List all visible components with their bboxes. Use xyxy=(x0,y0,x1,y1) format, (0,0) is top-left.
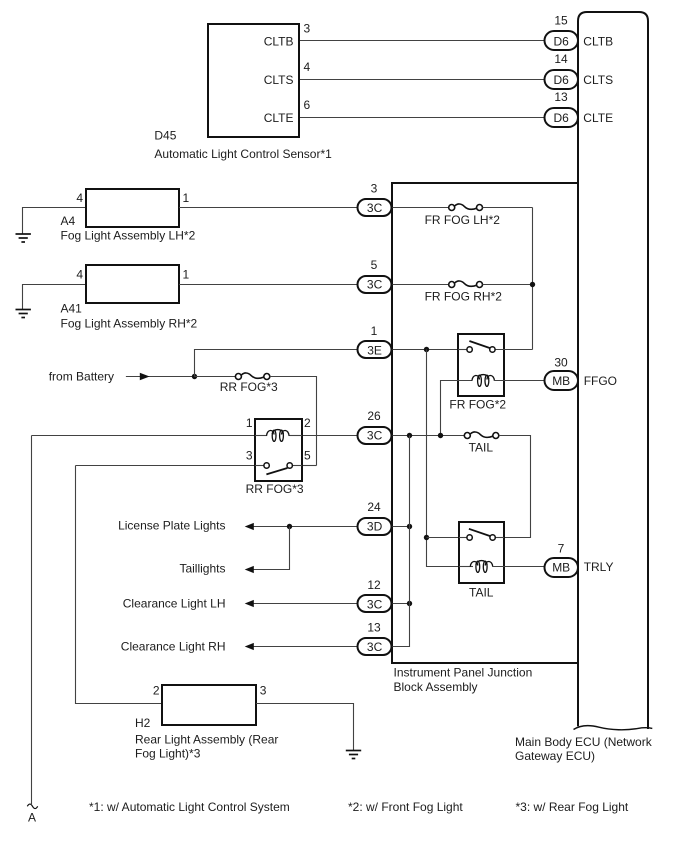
ECU torn bottom wavy edge xyxy=(574,726,653,730)
svg-text:Main Body ECU (Network: Main Body ECU (Network xyxy=(515,735,653,749)
wire fuse RR FOG*3 to relay pin5 xyxy=(270,377,317,466)
svg-text:1: 1 xyxy=(183,267,190,281)
wire A41 pin1 to 3C pin5 xyxy=(179,284,358,286)
node fog fuse vertical junction xyxy=(530,282,535,287)
node 26-row junction coil branch xyxy=(438,433,443,438)
svg-text:Block Assembly: Block Assembly xyxy=(394,680,478,694)
rear light H2 box xyxy=(162,685,256,725)
wire relay RR FOG*3 pin2 to 3C pin26 xyxy=(302,435,359,437)
connector D6 pin13 oval xyxy=(545,108,579,127)
svg-text:4: 4 xyxy=(304,60,311,74)
svg-text:*1: w/ Automatic Light Control: *1: w/ Automatic Light Control System xyxy=(89,800,290,814)
wire tail vertical bus to 3C pin13 xyxy=(392,436,410,647)
wire from battery feed xyxy=(126,376,195,378)
fuse TAIL xyxy=(464,432,499,439)
svg-text:MB: MB xyxy=(552,374,570,388)
fog light A41 box xyxy=(86,265,179,303)
svg-text:1: 1 xyxy=(246,416,253,430)
svg-text:3: 3 xyxy=(304,22,311,36)
svg-text:13: 13 xyxy=(554,90,568,104)
arrow battery flow direction xyxy=(140,373,150,381)
svg-text:RR FOG*3: RR FOG*3 xyxy=(220,380,278,394)
svg-text:FR FOG*2: FR FOG*2 xyxy=(449,398,506,412)
fog light A4 box xyxy=(86,189,179,227)
wire A41 pin4 to ground xyxy=(23,285,87,310)
svg-text:2: 2 xyxy=(153,684,160,698)
svg-text:3: 3 xyxy=(260,684,267,698)
svg-text:1: 1 xyxy=(183,191,190,205)
relay TAIL coil stub left xyxy=(459,566,473,568)
wire A4 pin4 to ground xyxy=(23,208,87,234)
svg-text:3E: 3E xyxy=(367,343,382,357)
wire 3C pin3 to fuse FR FOG LH*2 xyxy=(392,207,449,209)
node 3C12 junction xyxy=(407,601,412,606)
wire 3C pin13 to clearance light RH xyxy=(253,646,359,648)
svg-text:Taillights: Taillights xyxy=(179,562,225,576)
ground G2 (A41) xyxy=(16,310,31,318)
arrow license plate lights xyxy=(245,523,254,530)
svg-text:CLTS: CLTS xyxy=(583,73,613,87)
wire 3C pin26 to fuse TAIL xyxy=(392,435,465,437)
node TAIL switch feed junction xyxy=(424,535,429,540)
svg-text:CLTE: CLTE xyxy=(583,111,613,125)
relay TAIL switch blade xyxy=(469,529,490,536)
wire relay RR FOG*3 pin3 to H2 branch xyxy=(76,465,256,467)
svg-text:MB: MB xyxy=(552,560,570,574)
node battery junction xyxy=(192,374,197,379)
svg-text:14: 14 xyxy=(554,52,568,66)
svg-text:Gateway ECU): Gateway ECU) xyxy=(515,749,595,763)
relay TAIL coil xyxy=(470,561,492,573)
relay FR FOG*2 switch stubs xyxy=(458,349,467,351)
svg-text:Fog Light Assembly RH*2: Fog Light Assembly RH*2 xyxy=(61,317,198,331)
svg-text:CLTE: CLTE xyxy=(264,111,294,125)
svg-text:CLTB: CLTB xyxy=(583,34,613,48)
ground G1 (A4) xyxy=(16,234,31,242)
svg-text:13: 13 xyxy=(367,620,381,634)
fuse FR FOG LH*2 xyxy=(449,204,483,211)
relay FR FOG*2 coil xyxy=(472,375,494,387)
wire fuse FR FOG RH*2 to vertical xyxy=(483,284,533,286)
svg-text:7: 7 xyxy=(558,542,565,556)
node license/taillight junction xyxy=(287,524,292,529)
svg-text:26: 26 xyxy=(367,409,381,423)
svg-text:D45: D45 xyxy=(154,129,176,143)
svg-text:Instrument Panel Junction: Instrument Panel Junction xyxy=(394,666,533,680)
svg-text:D6: D6 xyxy=(554,73,570,87)
svg-text:Clearance Light RH: Clearance Light RH xyxy=(121,640,226,654)
relay RR FOG*3 coil xyxy=(267,430,289,442)
svg-text:24: 24 xyxy=(367,500,381,514)
ECU U1 Main Body ECU outline xyxy=(578,12,648,729)
svg-text:TAIL: TAIL xyxy=(469,441,494,455)
wire 3D pin24 to license plate lights xyxy=(253,526,359,528)
sensor D45 box xyxy=(208,24,299,137)
svg-text:TAIL: TAIL xyxy=(469,585,494,599)
wire 3E pin1 to relay FR FOG*2 switch xyxy=(392,349,467,351)
wire CLTB D45 pin3 to ECU D6 xyxy=(299,40,546,42)
svg-text:CLTS: CLTS xyxy=(264,73,294,87)
svg-text:License Plate Lights: License Plate Lights xyxy=(118,519,225,533)
ground G3 (H2) xyxy=(346,751,361,759)
wire junction to taillights xyxy=(253,527,290,570)
svg-text:CLTB: CLTB xyxy=(264,34,294,48)
wire relay pin3 down to H2 pin2 xyxy=(76,466,163,704)
connector 3C pin5 oval xyxy=(358,276,392,293)
svg-text:3C: 3C xyxy=(367,640,383,654)
wire FR FOG*2 coil left branch xyxy=(441,381,473,436)
relay RR FOG*3 switch contacts xyxy=(264,463,269,468)
IPJB Instrument Panel Junction Block outline xyxy=(392,183,578,663)
wire H2 pin3 to ground xyxy=(256,704,354,751)
svg-text:5: 5 xyxy=(371,258,378,272)
relay FR FOG*2 switch blade xyxy=(469,341,490,348)
connector 3C pin26 oval xyxy=(358,427,392,444)
wire battery junction to 3E pin1 xyxy=(195,350,359,377)
wire fuse TAIL to TAIL relay switch xyxy=(495,436,531,538)
wire 3C pin12 junction stub xyxy=(392,603,410,605)
relay RR FOG*3 coil stubs xyxy=(255,435,267,437)
svg-text:5: 5 xyxy=(304,449,311,463)
svg-text:TRLY: TRLY xyxy=(584,560,614,574)
svg-text:H2: H2 xyxy=(135,716,151,730)
svg-text:from Battery: from Battery xyxy=(49,370,114,384)
wire TAIL switch feed xyxy=(427,537,468,539)
relay FR FOG*2 box xyxy=(458,334,504,396)
svg-text:3C: 3C xyxy=(367,201,383,215)
wire node A vertical run xyxy=(31,436,33,805)
svg-text:3C: 3C xyxy=(367,597,383,611)
svg-text:3: 3 xyxy=(246,449,253,463)
connector 3E pin1 oval xyxy=(358,341,392,358)
wire 3C pin5 to fuse FR FOG RH*2 xyxy=(392,284,449,286)
svg-text:30: 30 xyxy=(554,356,568,370)
wire fuse FR FOG LH*2 to vertical xyxy=(483,207,533,209)
svg-text:4: 4 xyxy=(76,267,83,281)
wire relay RR FOG*3 pin1 to node A line xyxy=(32,435,256,437)
connector 3C pin3 oval xyxy=(358,199,392,216)
wire fog fuses vertical to relay FR FOG*2 switch xyxy=(532,208,534,350)
svg-text:4: 4 xyxy=(76,191,83,205)
svg-text:3: 3 xyxy=(371,181,378,195)
relay TAIL switch stubs xyxy=(459,537,467,539)
relay FR FOG*2 switch contacts xyxy=(467,347,472,352)
svg-text:A4: A4 xyxy=(61,214,76,228)
node 3D junction xyxy=(407,524,412,529)
break symbol node A xyxy=(27,804,37,809)
connector 3D pin24 oval xyxy=(358,518,392,535)
svg-text:2: 2 xyxy=(304,416,311,430)
svg-text:FFGO: FFGO xyxy=(584,374,617,388)
svg-text:D6: D6 xyxy=(554,111,570,125)
connector 3C pin12 oval xyxy=(358,595,392,612)
svg-text:RR FOG*3: RR FOG*3 xyxy=(246,482,304,496)
svg-text:*2: w/ Front Fog Light: *2: w/ Front Fog Light xyxy=(348,800,463,814)
arrow taillights xyxy=(245,566,254,573)
svg-text:1: 1 xyxy=(371,324,378,338)
svg-text:Fog Light)*3: Fog Light)*3 xyxy=(135,747,201,761)
wire CLTS D45 pin4 to ECU D6 xyxy=(299,79,546,81)
relay RR FOG*3 switch stubs xyxy=(255,465,264,467)
arrow clearance light LH xyxy=(245,600,254,607)
svg-text:15: 15 xyxy=(554,14,568,28)
wire 3C pin12 to clearance light LH xyxy=(253,603,359,605)
svg-text:FR FOG RH*2: FR FOG RH*2 xyxy=(425,289,503,303)
wire CLTE D45 pin6 to ECU D6 xyxy=(299,117,546,119)
svg-text:A41: A41 xyxy=(61,302,83,316)
relay TAIL box xyxy=(459,522,504,583)
svg-text:D6: D6 xyxy=(554,34,570,48)
svg-text:Fog Light Assembly LH*2: Fog Light Assembly LH*2 xyxy=(61,229,196,243)
svg-text:FR FOG LH*2: FR FOG LH*2 xyxy=(425,213,501,227)
svg-text:3C: 3C xyxy=(367,428,383,442)
svg-text:*3: w/ Rear Fog Light: *3: w/ Rear Fog Light xyxy=(516,800,629,814)
node 3E branch junction xyxy=(424,347,429,352)
connector D6 pin14 oval xyxy=(545,70,579,89)
wire 3D pin24 junction stub xyxy=(392,526,410,528)
wire relay RR FOG*3 pin5 stub xyxy=(302,465,317,467)
svg-text:3D: 3D xyxy=(367,519,383,533)
fuse FR FOG RH*2 xyxy=(449,281,483,288)
node 26-row junction left xyxy=(407,433,412,438)
arrow clearance light RH xyxy=(245,643,254,650)
svg-text:6: 6 xyxy=(304,98,311,112)
wire TAIL coil to MB pin7 xyxy=(493,566,546,568)
connector D6 pin15 oval xyxy=(545,31,579,50)
connector MB pin7 oval xyxy=(545,558,579,577)
svg-text:A: A xyxy=(28,811,36,825)
svg-text:12: 12 xyxy=(367,578,381,592)
wire A4 pin1 to 3C pin3 xyxy=(179,207,358,209)
svg-text:Clearance Light LH: Clearance Light LH xyxy=(123,596,226,610)
svg-text:3C: 3C xyxy=(367,277,383,291)
connector MB pin30 oval xyxy=(545,371,579,390)
relay TAIL switch contacts xyxy=(467,535,472,540)
relay RR FOG*3 box xyxy=(255,419,302,481)
wire 3E branch down to TAIL relay xyxy=(427,350,461,567)
wire FR FOG*2 coil to MB pin30 xyxy=(494,380,546,382)
relay RR FOG*3 switch blade xyxy=(266,468,287,474)
connector 3C pin13 oval xyxy=(358,638,392,655)
svg-text:Automatic Light Control Sensor: Automatic Light Control Sensor*1 xyxy=(154,147,332,161)
svg-text:Rear Light Assembly (Rear: Rear Light Assembly (Rear xyxy=(135,733,278,747)
wire battery junction to fuse RR FOG*3 xyxy=(195,376,236,378)
fuse RR FOG*3 xyxy=(235,373,269,380)
